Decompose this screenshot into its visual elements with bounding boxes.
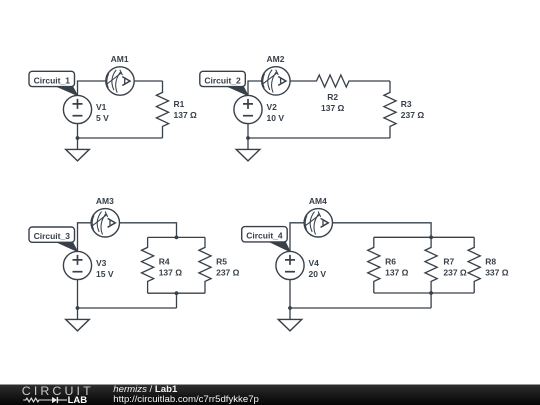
resistor R3 237Ω <box>384 81 396 138</box>
wire <box>290 223 304 252</box>
svg-text:LAB: LAB <box>68 395 88 405</box>
svg-text:237 Ω: 237 Ω <box>401 110 425 120</box>
svg-text:R8: R8 <box>485 257 496 267</box>
svg-text:AM2: AM2 <box>267 54 285 64</box>
wire <box>247 124 249 138</box>
ground <box>66 319 90 331</box>
resistor R1 137Ω <box>156 81 168 138</box>
junction <box>76 136 80 140</box>
svg-text:AM3: AM3 <box>96 196 114 206</box>
wire <box>289 280 291 308</box>
node Circuit_3 (net flag) <box>29 227 78 252</box>
footer title text <box>113 384 259 405</box>
wire <box>120 223 177 238</box>
svg-text:Circuit_3: Circuit_3 <box>34 231 71 241</box>
voltage source V4 (20 V) <box>276 251 326 279</box>
resistor R2 137Ω <box>290 75 390 87</box>
svg-text:337 Ω: 337 Ω <box>485 268 509 278</box>
svg-text:R3: R3 <box>401 99 412 109</box>
wire <box>374 292 474 294</box>
svg-text:http://circuitlab.com/c7rr5dfy: http://circuitlab.com/c7rr5dfykke7p <box>113 394 259 405</box>
node Circuit_4 (net flag) <box>242 227 290 252</box>
wire <box>78 223 92 252</box>
svg-text:137 Ω: 137 Ω <box>174 110 198 120</box>
svg-text:137 Ω: 137 Ω <box>159 268 183 278</box>
voltage source V3 (15 V) <box>63 251 113 279</box>
wire <box>374 236 474 238</box>
wire <box>78 137 163 139</box>
wire <box>77 138 79 149</box>
svg-text:R4: R4 <box>159 257 170 267</box>
svg-text:R2: R2 <box>327 92 338 102</box>
svg-text:V3: V3 <box>96 258 107 268</box>
svg-text:V4: V4 <box>309 258 320 268</box>
resistor R4 137Ω <box>142 237 154 293</box>
wire <box>176 293 178 308</box>
wire <box>333 223 432 238</box>
wire <box>430 293 432 308</box>
svg-text:R7: R7 <box>443 257 454 267</box>
resistor R8 337Ω <box>468 237 480 293</box>
junction <box>246 136 250 140</box>
svg-text:Circuit_2: Circuit_2 <box>204 75 241 85</box>
svg-text:AM1: AM1 <box>111 54 129 64</box>
ammeter AM2 <box>262 54 290 95</box>
wire <box>77 124 79 138</box>
svg-text:15 V: 15 V <box>96 269 114 279</box>
svg-text:V2: V2 <box>267 102 278 112</box>
ammeter AM4 <box>304 196 332 237</box>
ground <box>278 319 302 331</box>
svg-text:Circuit_1: Circuit_1 <box>34 75 71 85</box>
wire <box>148 236 205 238</box>
junction <box>175 291 179 295</box>
junction <box>175 236 179 240</box>
junction <box>76 306 80 310</box>
ammeter AM3 <box>91 196 119 237</box>
svg-text:V1: V1 <box>96 102 107 112</box>
svg-text:R5: R5 <box>216 257 227 267</box>
svg-text:R6: R6 <box>385 257 396 267</box>
wire <box>77 280 79 308</box>
resistor R5 237Ω <box>199 237 211 293</box>
ammeter AM1 <box>106 54 134 95</box>
voltage source V1 (5 V) <box>63 95 109 123</box>
voltage source V2 (10 V) <box>234 95 284 123</box>
junction <box>429 235 433 239</box>
wire <box>289 308 291 319</box>
node Circuit_1 (net flag) <box>29 71 78 95</box>
ground <box>236 149 260 161</box>
ground <box>66 149 90 161</box>
wire <box>248 81 262 95</box>
svg-text:R1: R1 <box>174 99 185 109</box>
svg-text:20 V: 20 V <box>309 269 327 279</box>
node Circuit_2 (net flag) <box>200 71 248 95</box>
svg-text:237 Ω: 237 Ω <box>443 268 467 278</box>
svg-text:AM4: AM4 <box>309 196 327 206</box>
wire <box>78 307 177 309</box>
resistor R6 137Ω <box>368 237 380 293</box>
wire <box>134 80 162 82</box>
wire <box>290 307 431 309</box>
wire <box>248 137 390 139</box>
wire <box>78 81 106 95</box>
svg-text:10 V: 10 V <box>267 113 285 123</box>
resistor R7 237Ω <box>425 237 437 293</box>
wire <box>148 292 205 294</box>
junction <box>429 291 433 295</box>
svg-text:5 V: 5 V <box>96 113 109 123</box>
wire <box>247 138 249 149</box>
svg-text:137 Ω: 137 Ω <box>385 268 409 278</box>
CircuitLab logo <box>22 384 94 405</box>
svg-text:137 Ω: 137 Ω <box>321 103 345 113</box>
junction <box>288 306 292 310</box>
svg-text:Circuit_4: Circuit_4 <box>246 231 283 241</box>
svg-text:237 Ω: 237 Ω <box>216 268 240 278</box>
wire <box>77 308 79 319</box>
